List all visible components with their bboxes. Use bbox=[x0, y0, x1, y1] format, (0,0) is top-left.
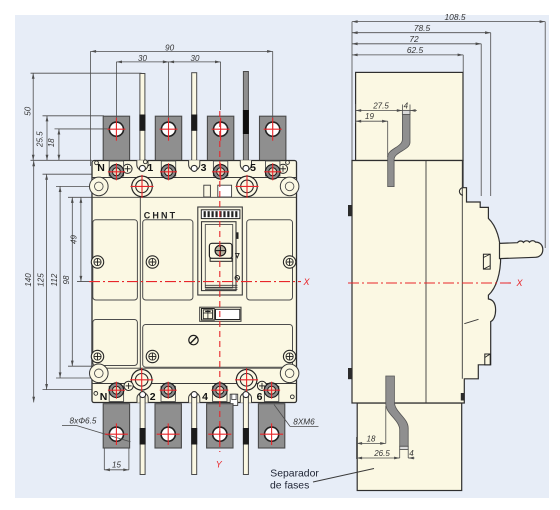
ext 4 left bbox=[401, 105, 403, 111]
svg-text:25.5: 25.5 bbox=[35, 131, 44, 148]
icon box bbox=[202, 309, 215, 321]
mounting screw top at 142.0 bbox=[132, 176, 153, 197]
top band line bbox=[92, 177, 297, 179]
svg-text:30: 30 bbox=[138, 54, 147, 63]
band detail rect 2 bbox=[218, 185, 232, 197]
extension 78.5 right bbox=[490, 33, 492, 196]
pad 3 hole bbox=[214, 122, 228, 136]
lower busbar side view bbox=[386, 376, 408, 446]
clamp block top bbox=[109, 161, 123, 176]
toggle well frame bbox=[202, 222, 237, 291]
red cross pad hole bottom bbox=[208, 423, 231, 445]
red cross pad hole top bbox=[160, 118, 178, 141]
X centerline side bbox=[348, 282, 514, 284]
red cross mounting screw bottom bbox=[130, 368, 153, 391]
bottom terminal pad 6 bbox=[258, 404, 284, 448]
bottom terminal pad 4 bbox=[207, 404, 233, 448]
phillips screw at 283.0,168.8 bbox=[278, 164, 287, 173]
break hatch marks on top strips bbox=[139, 115, 145, 131]
upper left recess bbox=[93, 220, 138, 300]
top terminal pad N bbox=[103, 116, 129, 161]
svg-text:CHNT: CHNT bbox=[144, 211, 177, 221]
red cross pad hole bottom bbox=[260, 423, 283, 445]
svg-text:8XM6: 8XM6 bbox=[293, 417, 315, 426]
bottom pad 4 hole bbox=[213, 427, 227, 441]
small circle mark bbox=[235, 276, 240, 281]
terminal screw bottom at 271.6 bbox=[264, 383, 279, 398]
strip notches in top edge bbox=[137, 160, 148, 170]
breaker body front view bbox=[92, 161, 297, 403]
extension line left of 90 bbox=[90, 51, 92, 166]
toggle handle side view bbox=[500, 241, 543, 259]
upper busbar side view bbox=[388, 115, 410, 187]
terminal screw top at 116.4 bbox=[109, 165, 124, 180]
dimension 15 bbox=[103, 449, 105, 470]
red cross pad hole top bbox=[107, 118, 125, 141]
Y centerline front bbox=[219, 111, 221, 452]
bottom busbar strip bbox=[192, 395, 197, 475]
pad 1 hole bbox=[161, 122, 175, 136]
side case front edge bbox=[461, 161, 463, 379]
mechanism column bbox=[198, 207, 243, 295]
svg-text:de fases: de fases bbox=[270, 481, 309, 492]
bottom band line bbox=[92, 383, 297, 385]
svg-text:Y: Y bbox=[216, 460, 223, 470]
grid icon bbox=[203, 310, 212, 319]
extension 112 bottom bbox=[56, 377, 92, 379]
strip end hole top bbox=[243, 165, 249, 171]
phillips screw at 262.0,385.9 bbox=[257, 381, 266, 390]
svg-text:Separador: Separador bbox=[270, 469, 319, 480]
svg-text:18: 18 bbox=[47, 138, 56, 147]
extension 72 right bbox=[480, 44, 482, 196]
dimension 26.5 / 4 (side bottom) bbox=[357, 457, 400, 459]
clamp block bottom bbox=[213, 386, 227, 401]
red cross terminal screw bottom bbox=[108, 382, 125, 399]
red cross terminal screw bottom bbox=[263, 382, 280, 399]
dimension 18 (side bottom) bbox=[356, 437, 358, 459]
svg-text:19: 19 bbox=[365, 112, 374, 121]
phillips screw at 128.6,385.9 bbox=[124, 381, 133, 390]
svg-text:78.5: 78.5 bbox=[414, 23, 431, 33]
X centerline front bbox=[89, 281, 301, 283]
red cross mounting screw bottom bbox=[235, 368, 258, 391]
svg-text:30: 30 bbox=[191, 54, 200, 63]
strip end hole bottom bbox=[243, 392, 249, 398]
extension 125 bottom bbox=[43, 389, 93, 391]
mounting screw bottom at 246.6 bbox=[236, 370, 257, 391]
dimension 19 (side top) bbox=[356, 120, 388, 122]
extension at pad hole bbox=[55, 128, 111, 130]
svg-text:X: X bbox=[515, 278, 523, 288]
second band line bbox=[92, 196, 297, 198]
blank window bbox=[216, 309, 240, 319]
dimension 140 bbox=[33, 161, 35, 403]
svg-text:4: 4 bbox=[409, 449, 414, 458]
red cross pad hole top bbox=[212, 118, 230, 141]
small pilot hole bbox=[143, 160, 147, 164]
top terminal pad 3 bbox=[207, 116, 233, 161]
recess screw at 97.5,356.5 bbox=[91, 350, 103, 362]
svg-text:4: 4 bbox=[404, 101, 409, 110]
upper phase separator block bbox=[356, 72, 463, 160]
corner boss bbox=[280, 177, 299, 196]
small pilot hole bbox=[290, 395, 294, 399]
bottom busbar strip bbox=[243, 395, 248, 475]
extension pole 1 bbox=[168, 62, 170, 116]
lower left recess bbox=[93, 320, 138, 366]
top busbar strip after 3 (gray) bbox=[243, 72, 248, 167]
clamp block bottom bbox=[264, 386, 278, 401]
toggle handle bbox=[209, 243, 232, 258]
trip mark triangle bbox=[236, 253, 240, 257]
accessory window bbox=[200, 307, 241, 321]
svg-text:4: 4 bbox=[202, 391, 208, 403]
small pilot hole bbox=[95, 161, 99, 165]
toggle screw bbox=[215, 245, 226, 256]
toggle flange bbox=[210, 258, 232, 261]
break hatches on bottom strips bbox=[140, 428, 146, 445]
strip notches in bottom edge bbox=[137, 393, 148, 403]
extension 62.5 right bbox=[462, 55, 464, 72]
well bottom stripes bbox=[205, 284, 238, 286]
extension overlays crossing pads bbox=[115, 116, 117, 129]
small pilot hole bbox=[94, 392, 98, 396]
top terminal pad 1 bbox=[155, 116, 181, 161]
red cross terminal screw top bbox=[212, 163, 229, 180]
bottom recess line bbox=[92, 367, 297, 369]
svg-text:3: 3 bbox=[201, 162, 207, 174]
svg-text:15: 15 bbox=[112, 460, 121, 469]
clamp block bottom bbox=[109, 386, 123, 401]
bottom pad 6 hole bbox=[265, 427, 279, 441]
svg-text:N: N bbox=[97, 162, 105, 174]
terminal screw bottom at 168.2 bbox=[161, 383, 176, 398]
svg-text:26.5: 26.5 bbox=[373, 449, 390, 458]
dimension 27.5 / 4 (side top) bbox=[355, 104, 357, 123]
clip rect upper bbox=[483, 254, 490, 269]
corner boss bottom bbox=[280, 364, 299, 383]
extension 98 bottom bbox=[68, 365, 92, 367]
recess screw at 152.4,262 bbox=[146, 256, 158, 268]
terminal screw bottom at 116.4 bbox=[109, 383, 124, 398]
bottom pad N hole bbox=[109, 427, 123, 441]
svg-text:6: 6 bbox=[257, 391, 263, 403]
clamp block top bbox=[266, 161, 280, 176]
ext 4 right bottom bbox=[407, 450, 409, 459]
bottom busbar strip bbox=[140, 395, 145, 475]
clamp block top bbox=[161, 161, 175, 176]
bottom terminal pad N bbox=[103, 404, 129, 448]
red cross terminal screw top bbox=[108, 163, 125, 180]
mounting rail tick lower bbox=[348, 368, 352, 379]
top busbar strip after N bbox=[140, 74, 145, 167]
rating plate (striped) bbox=[201, 210, 240, 219]
extension 108.5 right bbox=[544, 22, 546, 248]
lead-in to X centerline bbox=[77, 281, 89, 283]
red cross terminal screw bottom bbox=[160, 382, 177, 399]
ON mark I bbox=[236, 232, 238, 239]
band detail rect 1 bbox=[204, 185, 211, 197]
red cross pad hole bottom bbox=[157, 423, 180, 445]
svg-text:27.5: 27.5 bbox=[372, 101, 389, 110]
red cross pad hole top bbox=[264, 118, 282, 141]
lower wide recess bbox=[143, 325, 293, 368]
extension 98 top bbox=[68, 196, 92, 198]
small pilot hole bbox=[286, 161, 290, 165]
svg-text:5: 5 bbox=[250, 162, 256, 174]
upper right recess bbox=[247, 220, 293, 300]
red cross mounting screw top bbox=[236, 175, 259, 198]
busbar bottom cap bbox=[400, 446, 409, 449]
terminal screw top at 220.6 bbox=[213, 165, 228, 180]
left extension for side dims bbox=[351, 22, 353, 160]
padlock tab bbox=[230, 394, 238, 405]
clip rect lower bbox=[485, 354, 490, 365]
extension pole N bbox=[115, 62, 117, 116]
svg-text:98: 98 bbox=[62, 275, 71, 284]
top busbar strip after 1 bbox=[192, 73, 197, 167]
red cross mounting screw top bbox=[131, 175, 154, 198]
corner boss bottom bbox=[90, 364, 109, 383]
clamp block bottom bbox=[161, 386, 175, 401]
ext 4 right bbox=[409, 105, 411, 111]
extension pole 3 bbox=[220, 62, 222, 110]
dimension 49 bbox=[80, 197, 82, 281]
upper middle recess bbox=[143, 220, 193, 300]
red cross terminal screw bottom bbox=[211, 382, 228, 399]
terminal screw bottom at 219.8 bbox=[213, 383, 228, 398]
extension 112 top bbox=[56, 185, 92, 187]
red cross terminal screw top bbox=[160, 163, 177, 180]
svg-text:90: 90 bbox=[165, 44, 175, 53]
hinge knuckle arc bbox=[459, 188, 463, 196]
corner boss bbox=[90, 177, 109, 196]
mounting rail tick upper bbox=[348, 205, 352, 216]
ext 18 bbox=[385, 406, 387, 443]
extension line right of 90 to pad 5 bbox=[272, 51, 274, 116]
toggle well inner bbox=[205, 225, 232, 288]
ext 26.5 right bbox=[399, 450, 401, 459]
svg-text:X: X bbox=[302, 277, 310, 287]
svg-text:112: 112 bbox=[50, 273, 59, 286]
svg-text:8xΦ6.5: 8xΦ6.5 bbox=[70, 417, 97, 426]
svg-text:49: 49 bbox=[70, 235, 79, 244]
strip end hole bottom bbox=[140, 392, 146, 398]
svg-text:1: 1 bbox=[147, 162, 153, 174]
svg-text:18: 18 bbox=[367, 434, 376, 443]
extension at body top bbox=[31, 159, 93, 161]
recess screw at 152.4,356.5 bbox=[146, 350, 158, 362]
slotted screw symbol bbox=[189, 335, 198, 344]
strip end hole bottom bbox=[191, 392, 197, 398]
extension at busbar top bbox=[31, 72, 142, 74]
svg-text:108.5: 108.5 bbox=[445, 12, 466, 22]
svg-text:N: N bbox=[100, 391, 108, 403]
svg-text:72: 72 bbox=[409, 34, 419, 44]
mounting screw bottom at 141.7 bbox=[131, 370, 152, 391]
terminal screw top at 168.5 bbox=[161, 165, 176, 180]
red cross terminal screw top bbox=[264, 163, 281, 180]
extension 125 top bbox=[43, 173, 93, 175]
pole divider line bbox=[139, 197, 141, 383]
lower phase separator block bbox=[357, 403, 462, 491]
svg-text:50: 50 bbox=[23, 106, 32, 115]
recess screw at 97.5,262 bbox=[91, 256, 103, 268]
ext 19 bbox=[387, 121, 389, 157]
terminal screw top at 272.7 bbox=[265, 165, 280, 180]
pad N hole bbox=[109, 122, 123, 136]
chamfer edge line bbox=[464, 319, 478, 323]
pad 5 hole bbox=[266, 122, 280, 136]
top terminal pad 5 bbox=[260, 116, 286, 161]
strip end hole top bbox=[191, 165, 197, 171]
svg-text:140: 140 bbox=[24, 273, 33, 287]
bottom pad 2 hole bbox=[161, 427, 175, 441]
strip end hole top bbox=[139, 165, 145, 171]
side view body profile bbox=[352, 161, 501, 404]
svg-text:125: 125 bbox=[37, 273, 46, 287]
svg-text:62.5: 62.5 bbox=[407, 45, 424, 55]
leader to separator block bbox=[313, 469, 374, 483]
busbar top cap bbox=[402, 110, 410, 114]
bottom right tick bbox=[461, 393, 465, 401]
phillips screw at 127.5,168.8 bbox=[123, 164, 132, 173]
extension at pad top bbox=[43, 115, 105, 117]
mounting screw top at 247.0 bbox=[237, 176, 258, 197]
red cross pad hole bottom bbox=[105, 423, 128, 445]
clamp block top bbox=[213, 161, 227, 176]
recess screw at 289.6,262 bbox=[283, 256, 295, 268]
side internal divider bbox=[425, 161, 427, 404]
svg-text:2: 2 bbox=[150, 391, 156, 403]
bottom terminal pad 2 bbox=[155, 404, 181, 448]
recess screw at 289.6,356.5 bbox=[283, 350, 295, 362]
